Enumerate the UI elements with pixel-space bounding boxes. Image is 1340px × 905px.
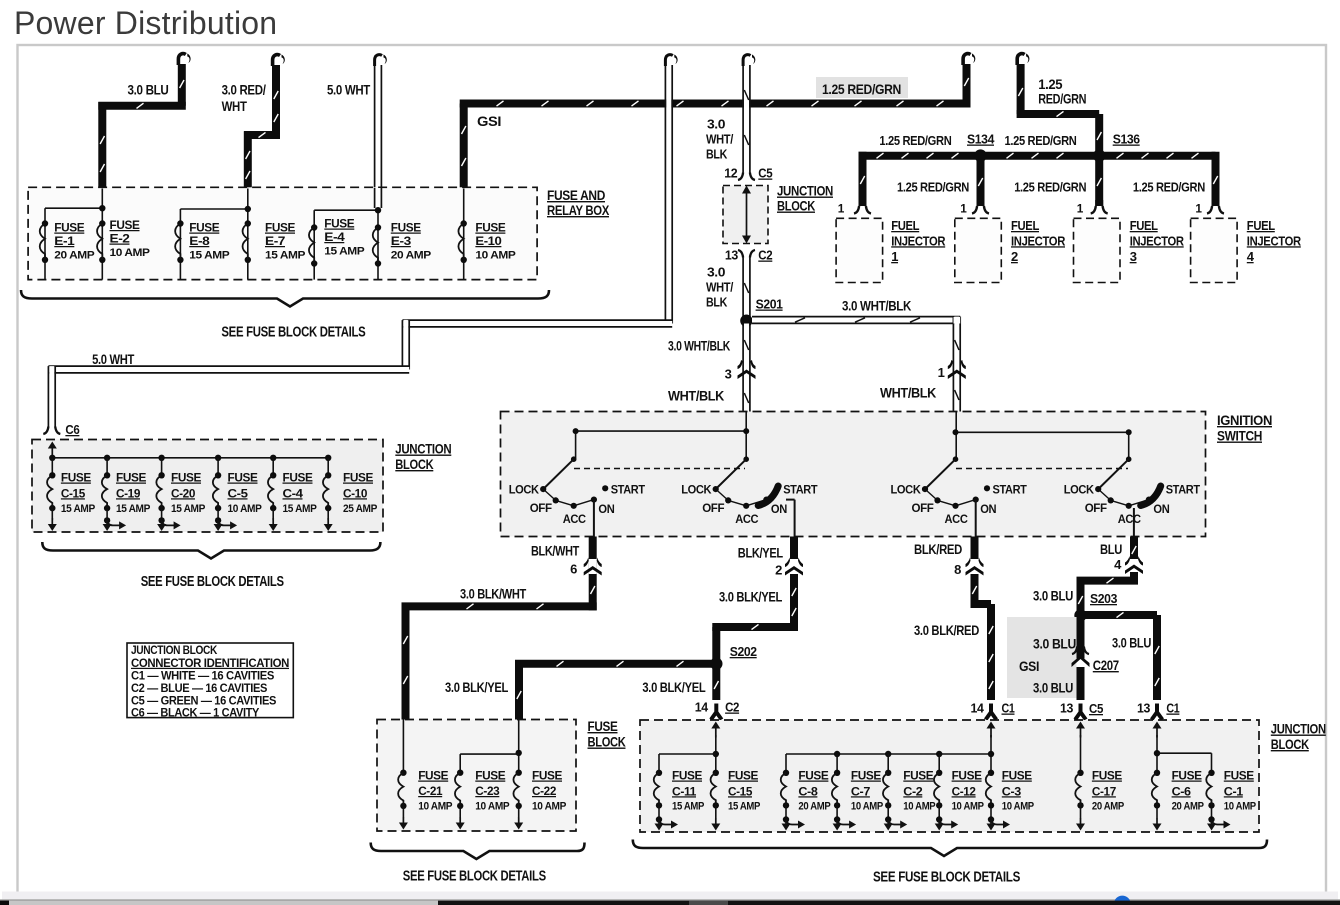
svg-text:3.0 WHT/BLK: 3.0 WHT/BLK (668, 338, 730, 354)
splice S201 (740, 315, 752, 327)
svg-text:13: 13 (1060, 701, 1073, 716)
svg-text:C5: C5 (1089, 701, 1103, 716)
svg-text:WHT/: WHT/ (706, 280, 734, 295)
svg-text:BLU: BLU (1100, 541, 1122, 557)
fuel injector 2 (dashed box) (955, 218, 1002, 282)
svg-text:C2: C2 (758, 248, 772, 263)
svg-text:ACC: ACC (1118, 512, 1141, 526)
svg-text:BLK/WHT: BLK/WHT (531, 543, 580, 559)
svg-text:FUEL: FUEL (891, 218, 919, 233)
svg-text:OFF: OFF (1085, 501, 1108, 515)
svg-text:C-15: C-15 (728, 784, 752, 798)
svg-text:C-4: C-4 (283, 486, 304, 500)
svg-text:GSI: GSI (477, 113, 501, 129)
svg-text:1.25 RED/GRN: 1.25 RED/GRN (1005, 133, 1077, 148)
svg-text:20 AMP: 20 AMP (1172, 801, 1205, 813)
svg-text:SEE FUSE BLOCK DETAILS: SEE FUSE BLOCK DETAILS (873, 870, 1021, 886)
entry arrow C1 right and bus to fuses C-6/C-1 (1156, 725, 1158, 738)
svg-text:E-3: E-3 (391, 234, 412, 248)
svg-text:FUSE: FUSE (952, 769, 982, 783)
mechanical link dashed lines (574, 468, 745, 470)
svg-text:FUSE: FUSE (1172, 769, 1202, 783)
connector C1 (junction block entry right) (1150, 704, 1164, 721)
svg-text:INJECTOR: INJECTOR (1247, 233, 1302, 248)
svg-text:5.0 WHT: 5.0 WHT (92, 351, 135, 367)
svg-text:S203: S203 (1090, 591, 1117, 606)
svg-text:FUSE: FUSE (475, 221, 505, 235)
svg-text:OFF: OFF (530, 501, 553, 515)
junction block connector identification table (127, 643, 293, 718)
svg-text:1.25 RED/GRN: 1.25 RED/GRN (897, 180, 969, 195)
fuel injector 4 (dashed box) (1191, 218, 1238, 282)
svg-text:ON: ON (598, 502, 614, 516)
svg-text:3.0 BLU: 3.0 BLU (1033, 588, 1073, 604)
svg-text:10 AMP: 10 AMP (1002, 801, 1035, 813)
svg-text:FUSE: FUSE (61, 471, 91, 485)
svg-text:E-7: E-7 (265, 234, 286, 248)
fuse C-4 15 AMP (junction block) (270, 455, 276, 461)
svg-text:C-3: C-3 (1002, 784, 1022, 798)
ignition switch box (dashed) (501, 412, 1206, 537)
svg-text:3.0 BLK/RED: 3.0 BLK/RED (914, 622, 979, 638)
svg-text:BLK: BLK (706, 295, 728, 310)
fuse C-1 10 AMP (junction block lower) (1208, 770, 1214, 776)
fuse C-10 25 AMP (junction block) (325, 455, 331, 461)
svg-text:C-5: C-5 (228, 486, 249, 500)
svg-text:OFF: OFF (912, 501, 935, 515)
svg-text:1: 1 (838, 202, 845, 216)
svg-text:FUEL: FUEL (1130, 218, 1158, 233)
svg-text:E-2: E-2 (110, 232, 131, 246)
node E1/E2 junction (101, 189, 103, 280)
svg-text:15 AMP: 15 AMP (189, 250, 230, 262)
svg-text:GSI: GSI (1019, 658, 1039, 674)
wire GSI / 1.25 RED/GRN main feed (460, 54, 976, 189)
feed line to fuse C-21 (402, 720, 404, 773)
svg-text:INJECTOR: INJECTOR (891, 233, 946, 248)
wire 3.0 RED/WHT from connector to fuse/relay box (244, 55, 285, 189)
fuel injector 3 (dashed box) (1074, 218, 1121, 282)
svg-text:3.0 BLU: 3.0 BLU (1112, 635, 1151, 651)
connector C2 (junction block entry) (709, 704, 723, 721)
svg-text:1.25 RED/GRN: 1.25 RED/GRN (822, 81, 901, 97)
svg-text:FUSE: FUSE (588, 718, 618, 734)
svg-text:JUNCTION: JUNCTION (777, 183, 833, 199)
connector pin 1 at fuel injector 3 (1091, 206, 1096, 214)
connector C5 (738, 173, 743, 181)
junction block bus (52, 457, 328, 459)
fuse E-2 10 AMP (99, 220, 105, 226)
wire BLK/RED output (pin 8) (966, 537, 994, 701)
svg-text:15 AMP: 15 AMP (728, 801, 761, 813)
svg-text:C207: C207 (1093, 657, 1119, 673)
fuse and relay box (dashed) (28, 187, 537, 279)
svg-text:WHT/BLK: WHT/BLK (880, 385, 936, 401)
svg-text:10 AMP: 10 AMP (418, 801, 453, 813)
svg-text:SEE FUSE BLOCK DETAILS: SEE FUSE BLOCK DETAILS (141, 574, 285, 590)
svg-text:1: 1 (960, 202, 967, 216)
wire 3.0 BLU from S203 right to C1 (1081, 612, 1160, 700)
svg-text:C-7: C-7 (851, 784, 871, 798)
entry arrow from C6 (51, 445, 53, 459)
svg-text:ON: ON (980, 502, 996, 516)
splice S134 (974, 149, 987, 162)
svg-text:LOCK: LOCK (681, 483, 711, 497)
node E4/E3 junction (5.0 WHT terminates) (377, 210, 379, 279)
fuse C-3 10 AMP (junction block lower) (988, 770, 994, 776)
entry arrow C5 to fuse C-17 (1080, 725, 1082, 738)
svg-text:E-4: E-4 (324, 230, 345, 244)
svg-text:FUSE: FUSE (1092, 769, 1122, 783)
svg-text:S201: S201 (756, 297, 783, 312)
wire BLK/YEL output (pin 2) to S202 (712, 537, 803, 664)
svg-text:C1: C1 (1166, 701, 1179, 716)
svg-text:FUSE: FUSE (343, 471, 373, 485)
gray halo behind 1.25 RED/GRN label (816, 77, 908, 98)
fuse C-15 15 AMP (junction block lower) (713, 770, 719, 776)
wire 3.0 WHT/BLK hollow from S201 right and down to ignition switch pin 1 (752, 317, 966, 412)
svg-text:3.0: 3.0 (707, 117, 725, 132)
wire 1.25 RED/GRN from right connector to S136 (1017, 54, 1102, 156)
svg-text:FUSE: FUSE (672, 769, 702, 783)
svg-text:15 AMP: 15 AMP (265, 250, 306, 262)
svg-text:E-10: E-10 (475, 234, 502, 248)
svg-text:LOCK: LOCK (509, 483, 539, 497)
fuel injector 1 (dashed box) (836, 218, 883, 282)
svg-text:S134: S134 (967, 132, 995, 147)
fuse C-22 10 AMP (fuse block) (516, 770, 522, 776)
fuse E-1 20 AMP (42, 220, 48, 226)
svg-text:15 AMP: 15 AMP (171, 503, 206, 515)
fuse E-7 15 AMP (245, 220, 251, 226)
fuse E-3 20 AMP (375, 224, 381, 230)
svg-text:BLK/RED: BLK/RED (914, 541, 962, 557)
svg-text:10 AMP: 10 AMP (475, 801, 510, 813)
svg-text:FUSE: FUSE (228, 471, 258, 485)
wire 3.0 WHT/BLK hollow from C2 to S201 (743, 258, 750, 319)
svg-text:25 AMP: 25 AMP (343, 503, 378, 515)
svg-text:4: 4 (1114, 557, 1122, 572)
svg-text:20 AMP: 20 AMP (391, 250, 432, 262)
entry arrow C2 and bus to fuses C-11/C-15 (715, 725, 717, 738)
feed wiring inside ignition switch (573, 412, 1132, 462)
svg-text:C-2: C-2 (903, 784, 923, 798)
svg-text:FUEL: FUEL (1247, 218, 1275, 233)
fuse C-21 10 AMP (fuse block) (400, 770, 406, 776)
connector pin 1 at fuel injector 4 (1207, 206, 1212, 214)
svg-text:JUNCTION: JUNCTION (1271, 721, 1326, 737)
svg-text:FUSE: FUSE (324, 217, 354, 231)
svg-text:FUSE: FUSE (265, 221, 295, 235)
splice S136 (1093, 149, 1106, 162)
injector bus 1.25 RED/GRN (859, 152, 1218, 206)
svg-text:C-1: C-1 (1224, 784, 1244, 798)
svg-text:13: 13 (1137, 701, 1150, 716)
svg-text:C-17: C-17 (1092, 784, 1116, 798)
svg-text:RED/GRN: RED/GRN (1038, 91, 1086, 107)
svg-text:JUNCTION: JUNCTION (395, 441, 451, 457)
fuse C-17 20 AMP (junction block lower) (1077, 770, 1083, 776)
svg-text:1: 1 (1195, 202, 1202, 216)
svg-text:FUSE: FUSE (391, 221, 421, 235)
wire 5.0 WHT (hollow) into fuse/relay box (375, 55, 387, 209)
svg-text:1.25 RED/GRN: 1.25 RED/GRN (1014, 180, 1086, 195)
svg-text:START: START (993, 483, 1028, 497)
svg-text:C-23: C-23 (475, 784, 499, 798)
svg-text:1.25 RED/GRN: 1.25 RED/GRN (879, 133, 951, 148)
svg-text:3.0 BLK/WHT: 3.0 BLK/WHT (460, 586, 527, 602)
svg-text:4: 4 (1247, 249, 1255, 264)
svg-text:E-8: E-8 (189, 234, 210, 248)
ignition switch wafer 2 (energized to START) (743, 456, 749, 462)
connector C1 (junction block entry) (984, 704, 998, 721)
svg-text:ACC: ACC (563, 512, 586, 526)
connector pin 1 at fuel injector 1 (854, 206, 859, 214)
svg-text:3.0 BLK/YEL: 3.0 BLK/YEL (445, 679, 509, 695)
svg-text:3.0 RED/: 3.0 RED/ (222, 82, 266, 98)
svg-text:BLK: BLK (706, 147, 728, 162)
wire 3.0 BLK/YEL from S202 down to C2 (714, 664, 718, 700)
svg-text:OFF: OFF (702, 501, 725, 515)
svg-text:15 AMP: 15 AMP (116, 503, 151, 515)
svg-text:WHT: WHT (222, 98, 248, 114)
svg-text:2: 2 (775, 563, 782, 578)
svg-text:C-21: C-21 (418, 784, 442, 798)
svg-text:FUEL: FUEL (1011, 218, 1039, 233)
svg-text:C-20: C-20 (171, 486, 195, 500)
gray halo behind GSI / 3.0 BLU labels (1007, 617, 1080, 698)
svg-text:WHT/BLK: WHT/BLK (668, 388, 724, 404)
svg-text:20 AMP: 20 AMP (1092, 801, 1125, 813)
svg-text:15 AMP: 15 AMP (61, 503, 96, 515)
ignition switch wafer 3 (LOCK position) (953, 456, 959, 462)
svg-text:C-15: C-15 (61, 486, 85, 500)
svg-text:BLOCK: BLOCK (588, 734, 626, 750)
svg-text:LOCK: LOCK (891, 483, 921, 497)
svg-text:10 AMP: 10 AMP (851, 801, 884, 813)
wire BLU output (pin 4) to S203 (1077, 537, 1144, 616)
svg-text:14: 14 (971, 701, 985, 716)
svg-text:BLOCK: BLOCK (395, 456, 433, 472)
svg-text:2: 2 (1011, 249, 1018, 264)
brace under fuse and relay box (21, 290, 549, 307)
svg-text:3.0: 3.0 (707, 265, 725, 280)
fuse E-8 15 AMP (177, 220, 183, 226)
svg-text:6: 6 (570, 562, 577, 577)
blue scroll indicator dot (1114, 896, 1131, 905)
svg-text:BLOCK: BLOCK (1271, 736, 1309, 752)
svg-text:S202: S202 (730, 644, 757, 659)
svg-text:LOCK: LOCK (1064, 483, 1094, 497)
wire 3.0 BLK/YEL from S202 left to fuse block (515, 661, 716, 719)
svg-text:FUSE AND: FUSE AND (547, 187, 605, 203)
svg-text:5.0 WHT: 5.0 WHT (327, 82, 371, 98)
wire 5.0 WHT hollow loop from top connector down-left to C6 (48, 55, 677, 428)
svg-text:C-10: C-10 (343, 486, 367, 500)
svg-text:20 AMP: 20 AMP (798, 801, 831, 813)
svg-text:E-1: E-1 (54, 234, 75, 248)
svg-text:INJECTOR: INJECTOR (1130, 233, 1185, 248)
svg-text:IGNITION: IGNITION (1217, 412, 1272, 428)
svg-text:1: 1 (938, 365, 945, 380)
svg-text:FUSE: FUSE (283, 471, 313, 485)
svg-text:FUSE: FUSE (54, 221, 84, 235)
node E8/E7 junction (247, 189, 249, 280)
svg-text:ACC: ACC (945, 512, 968, 526)
svg-text:13: 13 (725, 248, 738, 263)
svg-text:C-6: C-6 (1172, 784, 1192, 798)
svg-text:C5: C5 (758, 166, 772, 181)
svg-text:10 AMP: 10 AMP (952, 801, 985, 813)
fuse C-8 20 AMP (junction block lower) (783, 770, 789, 776)
svg-text:C-12: C-12 (952, 784, 976, 798)
svg-text:BLK/YEL: BLK/YEL (738, 545, 784, 561)
svg-text:FUSE: FUSE (728, 769, 758, 783)
svg-text:FUSE: FUSE (116, 471, 146, 485)
svg-text:START: START (1166, 483, 1201, 497)
svg-text:1: 1 (1077, 202, 1084, 216)
svg-text:10 AMP: 10 AMP (903, 801, 936, 813)
connector pin 1 at fuel injector 2 (972, 206, 977, 214)
fuse block box (dashed) (377, 720, 576, 832)
svg-text:3: 3 (1130, 249, 1137, 264)
fuse C-19 15 AMP (junction block) (104, 455, 110, 461)
fuse C-6 20 AMP (junction block lower) (1154, 770, 1160, 776)
wire 3.0 WHT/BLK hollow from S201 down to ignition switch pin 3 (738, 324, 756, 413)
fuse C-23 10 AMP (fuse block) (457, 770, 463, 776)
svg-text:FUSE: FUSE (1224, 769, 1254, 783)
svg-text:20 AMP: 20 AMP (54, 250, 95, 262)
svg-text:C6 — BLACK — 1 CAVITY: C6 — BLACK — 1 CAVITY (131, 705, 260, 719)
svg-text:10 AMP: 10 AMP (110, 247, 151, 259)
svg-text:3: 3 (725, 367, 732, 382)
svg-text:FUSE: FUSE (475, 769, 505, 783)
svg-text:BLOCK: BLOCK (777, 198, 815, 214)
svg-text:3.0 BLK/YEL: 3.0 BLK/YEL (642, 679, 706, 695)
fuse C-20 15 AMP (junction block) (158, 455, 164, 461)
svg-text:10 AMP: 10 AMP (228, 503, 263, 515)
svg-text:ON: ON (1153, 502, 1169, 516)
splice S203 (1074, 609, 1086, 621)
svg-text:FUSE: FUSE (418, 769, 448, 783)
svg-text:START: START (611, 483, 646, 497)
entry arrow C1 and bus to fuses C-8..C-12 (990, 725, 992, 738)
wire 3.0 WHT/BLK hollow from top connector to C5 (743, 55, 755, 173)
connector C2 (738, 250, 743, 258)
splice S202 (710, 658, 722, 670)
svg-text:FUSE: FUSE (189, 221, 219, 235)
svg-text:10 AMP: 10 AMP (1224, 801, 1257, 813)
svg-text:1: 1 (891, 249, 898, 264)
svg-text:C2: C2 (725, 700, 739, 715)
svg-text:3.0 BLU: 3.0 BLU (128, 82, 169, 98)
fuse E-10 10 AMP (463, 189, 465, 280)
brace under left junction block (42, 542, 380, 559)
svg-text:WHT/: WHT/ (706, 132, 734, 147)
ignition switch wafer 4 (energized to START) (1126, 456, 1132, 462)
svg-text:1.25 RED/GRN: 1.25 RED/GRN (1133, 180, 1205, 195)
wire 3.0 BLU / GSI from S203 down through C207 to C5 (1072, 615, 1090, 700)
svg-text:RELAY BOX: RELAY BOX (547, 202, 610, 218)
bottom scrollbar: light segment (0, 901, 1340, 905)
svg-text:FUSE: FUSE (903, 769, 933, 783)
svg-text:15 AMP: 15 AMP (324, 246, 365, 258)
connector C6 (43, 427, 48, 435)
bottom light strip (2, 892, 1338, 901)
svg-text:8: 8 (954, 562, 961, 577)
brace under right junction block (633, 840, 1267, 857)
svg-text:FUSE: FUSE (532, 769, 562, 783)
svg-text:FUSE: FUSE (798, 769, 828, 783)
svg-text:ACC: ACC (735, 512, 758, 526)
svg-text:Power Distribution: Power Distribution (14, 5, 277, 41)
svg-text:FUSE: FUSE (1002, 769, 1032, 783)
feed lines to fuses C-23 / C-22 (518, 720, 520, 773)
svg-text:3.0 BLU: 3.0 BLU (1033, 636, 1076, 652)
fuse C-7 10 AMP (junction block lower) (834, 770, 840, 776)
junction block box (left, dashed) (32, 440, 383, 533)
svg-text:3.0 WHT/BLK: 3.0 WHT/BLK (842, 298, 911, 314)
svg-text:SWITCH: SWITCH (1217, 428, 1262, 444)
wire 5.0 WHT inside box to E4/E3 junction (375, 188, 380, 208)
svg-text:START: START (783, 483, 818, 497)
connector C5 (junction block entry) (1074, 704, 1088, 721)
fuse C-5 10 AMP (junction block) (215, 455, 221, 461)
svg-text:C-19: C-19 (116, 486, 140, 500)
ignition switch wafer 1 (LOCK position) (571, 456, 577, 462)
svg-text:FUSE: FUSE (110, 218, 140, 232)
svg-text:3.0 BLK/YEL: 3.0 BLK/YEL (719, 589, 783, 605)
fuse C-2 10 AMP (junction block lower) (885, 770, 891, 776)
svg-text:SEE FUSE BLOCK DETAILS: SEE FUSE BLOCK DETAILS (403, 869, 547, 885)
svg-text:ON: ON (771, 502, 787, 516)
svg-text:10 AMP: 10 AMP (532, 801, 567, 813)
svg-text:C6: C6 (65, 422, 79, 437)
fuse C-15 15 AMP (junction block) (49, 455, 55, 461)
svg-text:15 AMP: 15 AMP (283, 503, 318, 515)
svg-text:10 AMP: 10 AMP (475, 250, 516, 262)
svg-text:14: 14 (695, 700, 709, 715)
junction block box (bottom right, dashed) (640, 720, 1259, 832)
junction block small box with pass-through arrow (723, 186, 768, 244)
svg-text:FUSE: FUSE (171, 471, 201, 485)
fuse C-12 10 AMP (junction block lower) (936, 770, 942, 776)
svg-text:3.0 BLU: 3.0 BLU (1033, 680, 1073, 696)
brace under fuse block (371, 843, 585, 860)
svg-text:S136: S136 (1113, 132, 1140, 147)
svg-text:12: 12 (724, 166, 737, 181)
svg-text:C-8: C-8 (798, 784, 818, 798)
svg-text:C1: C1 (1002, 701, 1015, 716)
svg-text:15 AMP: 15 AMP (672, 801, 705, 813)
wire BLK/WHT output (pin 6) (402, 537, 602, 720)
svg-text:SEE FUSE BLOCK DETAILS: SEE FUSE BLOCK DETAILS (221, 325, 366, 341)
svg-text:C-22: C-22 (532, 784, 556, 798)
svg-text:C-11: C-11 (672, 784, 696, 798)
svg-text:FUSE: FUSE (851, 769, 881, 783)
svg-text:INJECTOR: INJECTOR (1011, 233, 1066, 248)
fuse E-4 15 AMP (311, 224, 317, 230)
wire 3.0 BLU from connector to fuse/relay box (98, 54, 190, 189)
fuse C-11 15 AMP (junction block lower) (656, 770, 662, 776)
